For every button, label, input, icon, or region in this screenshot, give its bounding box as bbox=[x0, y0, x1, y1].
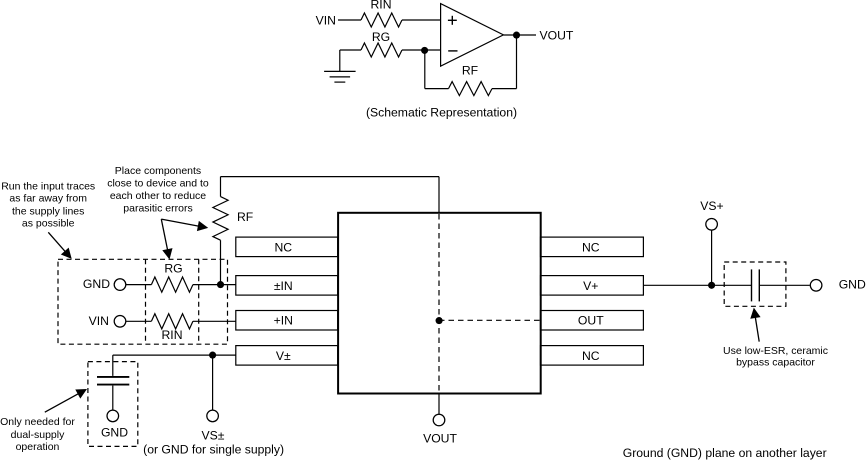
svg-text:±IN: ±IN bbox=[274, 279, 293, 293]
svg-text:VIN: VIN bbox=[316, 14, 336, 28]
svg-text:Place components: Place components bbox=[115, 165, 201, 177]
svg-text:V±: V± bbox=[276, 349, 291, 363]
svg-text:the supply lines: the supply lines bbox=[12, 205, 84, 217]
svg-text:NC: NC bbox=[582, 240, 600, 254]
svg-text:+IN: +IN bbox=[274, 314, 293, 328]
svg-text:RF: RF bbox=[237, 210, 253, 224]
svg-text:NC: NC bbox=[274, 240, 292, 254]
svg-text:close to device and to: close to device and to bbox=[107, 177, 209, 189]
svg-text:VIN: VIN bbox=[89, 314, 109, 328]
svg-text:VS+: VS+ bbox=[700, 199, 723, 213]
svg-text:RG: RG bbox=[164, 262, 182, 276]
svg-text:(Schematic Representation): (Schematic Representation) bbox=[366, 106, 517, 120]
svg-text:VOUT: VOUT bbox=[540, 29, 574, 43]
svg-text:operation: operation bbox=[16, 441, 60, 453]
svg-text:each other to reduce: each other to reduce bbox=[110, 190, 206, 202]
svg-text:as far away from: as far away from bbox=[9, 193, 87, 205]
svg-text:GND: GND bbox=[839, 278, 866, 292]
svg-text:Ground (GND) plane on another: Ground (GND) plane on another layer bbox=[623, 446, 827, 460]
svg-text:OUT: OUT bbox=[578, 314, 604, 328]
svg-text:GND: GND bbox=[101, 426, 128, 440]
svg-text:as possible: as possible bbox=[22, 217, 75, 229]
svg-text:Run the input traces: Run the input traces bbox=[1, 180, 95, 192]
svg-text:parasitic errors: parasitic errors bbox=[123, 203, 192, 215]
svg-text:bypass capacitor: bypass capacitor bbox=[736, 356, 815, 368]
svg-text:dual-supply: dual-supply bbox=[11, 429, 65, 441]
svg-text:(or GND for single supply): (or GND for single supply) bbox=[143, 442, 284, 456]
svg-text:VOUT: VOUT bbox=[423, 432, 457, 446]
svg-text:RG: RG bbox=[372, 30, 390, 44]
svg-text:Use low-ESR, ceramic: Use low-ESR, ceramic bbox=[723, 345, 828, 357]
svg-text:RIN: RIN bbox=[162, 328, 183, 342]
svg-text:RF: RF bbox=[462, 63, 478, 77]
svg-text:VS±: VS± bbox=[202, 429, 225, 443]
svg-text:NC: NC bbox=[582, 349, 600, 363]
svg-text:GND: GND bbox=[83, 277, 110, 291]
svg-text:RIN: RIN bbox=[371, 0, 392, 11]
svg-text:Only needed for: Only needed for bbox=[0, 416, 75, 428]
svg-text:V+: V+ bbox=[583, 279, 598, 293]
